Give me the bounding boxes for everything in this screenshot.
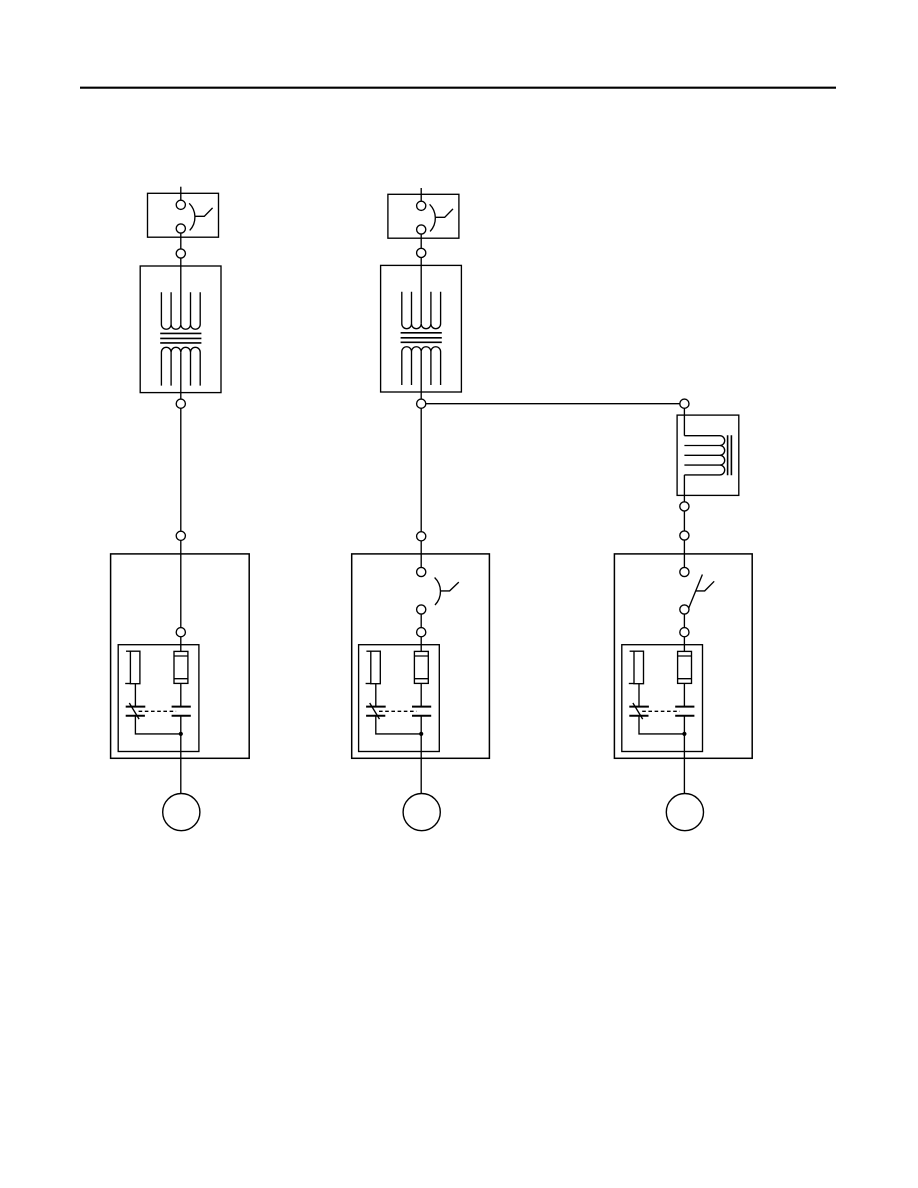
resistor A top lead [126, 650, 130, 652]
transformer box T1 [140, 266, 221, 393]
terminal circle S2 pin 2 [417, 225, 426, 234]
wire A terminal to fuse [180, 637, 182, 652]
wire out of transformer T1 [180, 352, 182, 399]
bulb A [163, 794, 200, 831]
header rule [80, 87, 836, 89]
wire T1 to lamp unit A [180, 408, 182, 531]
wire B resistor to capacitor [375, 684, 377, 707]
resistor B body [371, 651, 381, 684]
coil L1 core [728, 435, 732, 475]
coil L1 winding [684, 436, 724, 475]
transformer T1 secondary winding [161, 347, 200, 385]
resistor B bottom lead [366, 683, 371, 685]
junction dot B [419, 732, 423, 736]
capacitor A right plates [172, 707, 191, 716]
wire between terminals right branch [683, 511, 685, 531]
igniter box C [622, 645, 703, 752]
wire C terminal to fuse [683, 637, 685, 652]
wire B junction to bulb [420, 734, 422, 794]
terminal circle above lamp unit A [176, 531, 185, 540]
capacitor B left slash [370, 703, 380, 719]
dashed link A [139, 710, 177, 712]
resistor B top lead [366, 650, 370, 652]
wire T2 output to coil L1 [426, 403, 680, 405]
wire into lamp unit B [420, 541, 422, 568]
switch box S2 [388, 194, 459, 238]
terminal circle C switch top [680, 567, 689, 576]
wire from switch box S1 [180, 233, 182, 249]
coil box L1 [677, 415, 739, 495]
junction dot C [682, 732, 686, 736]
dashed link B [379, 710, 417, 712]
wire A left branch to junction [135, 716, 180, 734]
wire A resistor to capacitor [134, 684, 136, 707]
capacitor A left slash [129, 703, 139, 719]
transformer T2 core [401, 333, 442, 343]
transformer T2 primary winding [402, 292, 441, 329]
wire A fuse to capacitor [180, 683, 182, 706]
fuse B end caps [414, 656, 428, 679]
terminal circle below switch box S1 [176, 249, 185, 258]
bulb C [666, 794, 703, 831]
transformer box T2 [381, 265, 462, 392]
capacitor B left plates [366, 707, 386, 716]
wire B switch to terminal [420, 614, 422, 628]
transformer T2 secondary winding [402, 347, 441, 385]
terminal circle below transformer T2 [417, 399, 426, 408]
outer box lamp unit A [111, 554, 250, 758]
wire C junction to bulb [683, 734, 685, 794]
resistor C body [634, 651, 644, 684]
terminal circle C above igniter [680, 628, 689, 637]
capacitor B right plates [412, 707, 431, 716]
bulb B [403, 794, 440, 831]
wire A junction to bulb [180, 734, 182, 794]
fuse C end caps [678, 656, 692, 679]
fuse A end caps [174, 656, 188, 679]
wire C switch to terminal [683, 614, 685, 628]
wire into transformer T2 [420, 258, 422, 324]
wire from switch box S2 [420, 234, 422, 248]
outer box lamp unit B [352, 554, 490, 758]
wire B fuse to capacitor [420, 683, 422, 706]
capacitor C right plates [675, 707, 694, 716]
switch B contact arc [435, 578, 441, 606]
wire A capacitor to junction [180, 716, 182, 734]
terminal circle B switch top [417, 567, 426, 576]
terminal circle below coil L1 [680, 502, 689, 511]
switch S2 contact arc [430, 204, 436, 231]
wire into transformer T1 [180, 258, 182, 324]
transformer T1 primary winding [161, 292, 200, 329]
wire T2 to lamp unit B [420, 408, 422, 531]
terminal circle B switch bottom [417, 605, 426, 614]
terminal circle above coil L1 [680, 399, 689, 408]
switch box S1 [148, 193, 219, 237]
wire C fuse to capacitor [683, 683, 685, 706]
terminal circle below transformer T1 [176, 399, 185, 408]
wire B left branch to junction [376, 716, 421, 734]
switch C actuator [696, 581, 714, 591]
transformer T1 core [160, 333, 201, 343]
switch B actuator [441, 582, 459, 591]
capacitor C left plates [629, 707, 649, 716]
terminal circle S1 pin 2 [176, 224, 185, 233]
terminal circle A above igniter [176, 628, 185, 637]
switch S2 actuator [436, 209, 453, 217]
fuse C body [678, 651, 692, 683]
switch blade C [689, 575, 703, 609]
igniter box B [359, 645, 440, 752]
wire C left branch to junction [639, 716, 684, 734]
dashed link C [642, 710, 680, 712]
terminal circle S1 pin 1 [176, 200, 185, 209]
fuse B body [414, 651, 428, 683]
wire into lamp unit A [180, 540, 182, 627]
wire out of transformer T2 [420, 352, 422, 400]
terminal circle S2 pin 1 [417, 201, 426, 210]
switch S1 actuator [196, 208, 213, 216]
terminal circle above lamp unit B [417, 532, 426, 541]
wire B capacitor to junction [420, 716, 422, 734]
terminal circle above lamp unit C [680, 531, 689, 540]
fuse A body [174, 651, 188, 683]
outer box lamp unit C [614, 554, 752, 758]
terminal circle below switch box S2 [417, 248, 426, 257]
wire B terminal to fuse [420, 637, 422, 652]
terminal circle C switch bottom [680, 605, 689, 614]
resistor C bottom lead [629, 683, 634, 685]
capacitor A left plates [126, 707, 146, 716]
wire C resistor to capacitor [638, 684, 640, 707]
switch S1 contact arc [189, 203, 195, 230]
resistor A body [130, 651, 140, 684]
wire stub into switch box S1 [180, 187, 182, 201]
terminal circle B above igniter [417, 628, 426, 637]
wire stub into switch box S2 [420, 188, 422, 201]
wire into coil box L1 [683, 408, 685, 435]
resistor C top lead [630, 650, 634, 652]
junction dot A [179, 732, 183, 736]
wire into lamp unit C [683, 540, 685, 567]
igniter box A [118, 645, 199, 752]
wire C capacitor to junction [683, 716, 685, 734]
resistor A bottom lead [125, 683, 130, 685]
capacitor C left slash [633, 703, 643, 719]
wire out of coil box L1 [683, 475, 685, 502]
